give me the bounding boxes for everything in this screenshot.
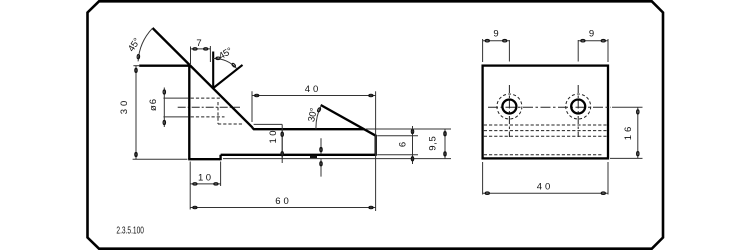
- hidden horizontal edge (dashed): [218, 123, 244, 125]
- dim 6 ring lower: [411, 157, 413, 161]
- hole1 vertical center line: [508, 85, 510, 137]
- dim phi6 extension upper: [163, 97, 188, 99]
- part left edge: [188, 65, 190, 160]
- recess dim upper arrow: [320, 138, 322, 154]
- dim phi6 ring lower: [163, 120, 165, 124]
- 30 degree sloped edge: [321, 105, 376, 136]
- svg-text:40: 40: [305, 84, 319, 95]
- svg-text:16: 16: [623, 127, 634, 141]
- dim 40 plate line: [483, 192, 608, 194]
- hidden line 4: [484, 154, 603, 156]
- recess tick: [310, 156, 317, 158]
- dim 60 line: [190, 207, 376, 209]
- hole2 vertical center line: [577, 85, 579, 137]
- svg-text:10: 10: [268, 131, 279, 144]
- hidden line 1: [484, 124, 607, 126]
- dim 9 left extension: [482, 39, 484, 62]
- dim 9 right center extension: [577, 40, 579, 62]
- dim 6 ring upper: [411, 129, 413, 133]
- dim 9 right extension: [607, 39, 609, 62]
- dim 6 extension upper: [377, 135, 418, 137]
- dim 16 line: [637, 107, 639, 158]
- svg-text:45°: 45°: [126, 36, 143, 54]
- svg-text:40: 40: [537, 182, 551, 193]
- svg-text:9,5: 9,5: [428, 136, 439, 151]
- svg-text:10: 10: [198, 173, 211, 184]
- dim 30 line: [135, 66, 137, 160]
- hidden vertical edge (dashed): [217, 102, 219, 124]
- dim 9 right line: [578, 40, 608, 42]
- drawing frame border: [88, 1, 664, 248]
- dim 6 line: [412, 126, 414, 164]
- svg-text:9: 9: [493, 29, 498, 40]
- svg-text:45°: 45°: [217, 45, 235, 62]
- svg-text:6: 6: [398, 142, 409, 147]
- dim 40 plate extension left: [482, 162, 484, 195]
- angle 45 groove arc: [213, 58, 237, 68]
- svg-text:ø6: ø6: [148, 99, 159, 111]
- hole center line (dash-dot): [178, 106, 240, 108]
- bottom edge right portion: [221, 154, 376, 156]
- dim 30 extension top: [133, 65, 139, 67]
- bottom reference line (foot bottom extended right): [223, 158, 451, 160]
- hidden line 3: [484, 135, 607, 137]
- hole 2: [571, 100, 585, 114]
- 45 degree chamfer line: [153, 28, 253, 127]
- dim 10 base line: [281, 124, 283, 163]
- hidden hole edge upper (dashed): [191, 97, 220, 99]
- dim 40 plate extension right: [607, 162, 609, 195]
- dim 7 extension right: [209, 46, 211, 62]
- dim 6 extension lower: [377, 154, 418, 156]
- svg-text:7: 7: [196, 38, 201, 49]
- hole 1 countersink (dashed): [497, 94, 522, 119]
- dim 10 base jog line: [254, 123, 283, 125]
- V-groove vertical face: [212, 52, 214, 89]
- svg-text:9: 9: [589, 29, 594, 40]
- dim 9.5 extension upper: [366, 128, 451, 130]
- angle 45 left arc: [138, 28, 152, 61]
- extension line right tall: [375, 91, 377, 211]
- foot bottom edge: [188, 158, 220, 160]
- V-groove sloped face: [213, 65, 242, 88]
- dim 10 bottom extension left: [189, 162, 191, 210]
- hole 1: [502, 100, 516, 114]
- dim 7 extension left: [190, 47, 192, 65]
- dim 40 line: [252, 95, 376, 97]
- hole 2 countersink (dashed): [566, 94, 591, 119]
- horizontal center line through holes: [488, 106, 611, 108]
- dim 9.5 line: [444, 129, 446, 159]
- dim phi6 extension lower: [163, 116, 188, 118]
- dim 40 extension left: [251, 91, 253, 122]
- hidden line 2: [484, 130, 607, 132]
- dim 9 left center extension: [508, 40, 510, 62]
- hidden hole edge lower (dashed): [191, 116, 225, 118]
- svg-text:2.3.5.100: 2.3.5.100: [116, 224, 144, 236]
- dim 16 extension bottom: [610, 157, 643, 159]
- dim 10 bottom extension right: [220, 162, 222, 187]
- dim 16 extension top: [612, 106, 643, 108]
- svg-text:60: 60: [275, 196, 289, 207]
- dim 9 left line: [483, 40, 510, 42]
- base top edge: [252, 128, 364, 130]
- dim 7 line: [190, 48, 210, 50]
- dim 30 extension bottom: [133, 158, 188, 160]
- right end edge: [375, 135, 377, 156]
- step edge: [219, 155, 221, 160]
- dim phi6 ring upper: [163, 90, 165, 94]
- dim phi6 line: [163, 88, 165, 128]
- svg-text:30: 30: [119, 101, 130, 115]
- plate outline: [483, 66, 608, 159]
- recess dim lower arrow: [320, 159, 322, 177]
- svg-text:30°: 30°: [306, 107, 320, 123]
- dim 10 bottom line: [190, 183, 220, 185]
- part top edge: [139, 65, 190, 67]
- angle 30 arc: [316, 106, 321, 130]
